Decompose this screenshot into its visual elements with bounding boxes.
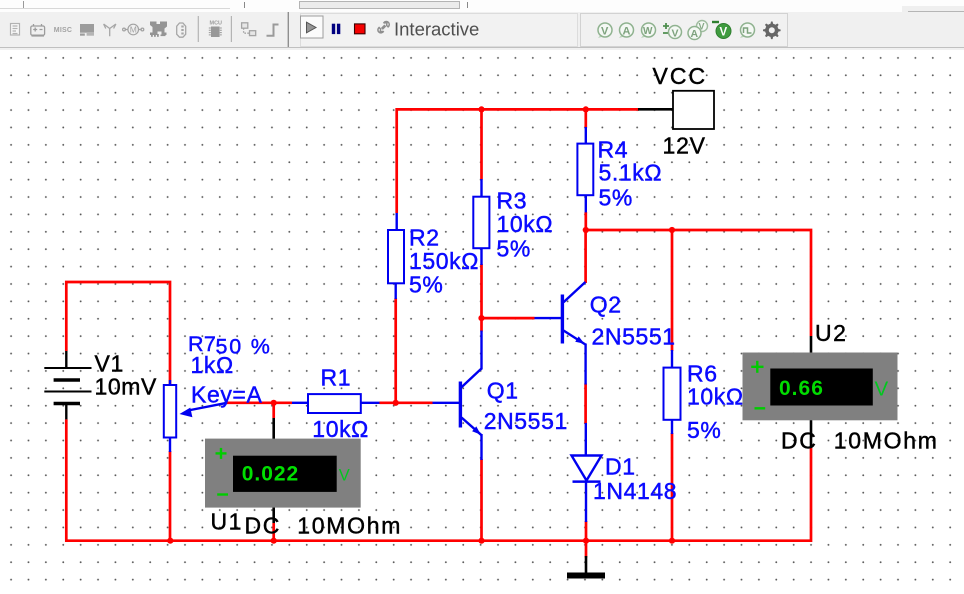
svg-text:V: V xyxy=(339,467,350,485)
svg-text:2N5551: 2N5551 xyxy=(484,408,568,434)
pause button xyxy=(332,24,335,34)
junction node rail / Q1 emitter xyxy=(478,538,484,544)
svg-text:1N4148: 1N4148 xyxy=(593,478,677,504)
probe -V active icon xyxy=(712,22,731,39)
junction node R3 / Q1 collector / Q2 base xyxy=(478,315,484,321)
svg-text:Q1: Q1 xyxy=(487,378,519,404)
wire VCC black lead xyxy=(638,108,674,111)
probe voltage-reference icon xyxy=(663,23,682,40)
gear settings icon xyxy=(763,22,781,40)
transistor Q2 xyxy=(535,282,586,385)
junction node R7 wiper / R1 / U1 xyxy=(271,400,277,406)
wire U1 minus to rail xyxy=(272,523,275,541)
wire R7 wiper to R1 xyxy=(225,401,292,404)
wire rail to R3 top xyxy=(480,109,483,179)
wire U1 plus black lead xyxy=(272,418,275,440)
wire Q1 emitter to rail xyxy=(480,459,483,541)
wire node to Q2 collector xyxy=(584,230,587,283)
wrench icon xyxy=(378,22,389,33)
svg-text:DC 10MOhm: DC 10MOhm xyxy=(245,513,403,539)
bus branch toolbar icon xyxy=(267,25,279,36)
probe A/V dual icon xyxy=(688,21,708,41)
probe W icon xyxy=(641,23,656,38)
separator xyxy=(198,16,199,42)
diode D1 xyxy=(572,423,602,522)
potentiometer R7 xyxy=(164,380,227,452)
wire node to U1 plus xyxy=(272,403,275,418)
svg-text:R1: R1 xyxy=(321,365,352,391)
wire R4 bottom to node xyxy=(584,212,587,230)
probe A icon xyxy=(619,23,634,38)
junction node VCC rail / R4 xyxy=(583,106,589,112)
wire Q2 emitter to D1 xyxy=(584,384,587,425)
separator xyxy=(231,16,232,42)
junction node R1 / R2 xyxy=(393,400,399,406)
svg-text:DC 10MOhm: DC 10MOhm xyxy=(781,428,939,454)
svg-text:Key=A: Key=A xyxy=(191,382,262,408)
wire V1 top to R7 top xyxy=(66,282,170,384)
wire node to R6 top and U2 plus xyxy=(586,230,811,336)
svg-text:0.66: 0.66 xyxy=(779,377,824,400)
svg-text:5%: 5% xyxy=(687,417,721,443)
wire node to Q2 base xyxy=(482,317,535,320)
peripheral toolbar icon xyxy=(80,24,94,36)
transistor Q1 xyxy=(433,331,482,460)
wire R6 bottom to rail xyxy=(671,433,674,541)
voltmeter U1 xyxy=(205,439,361,508)
svg-text:2N5551: 2N5551 xyxy=(592,324,676,350)
wire rail to R4 top xyxy=(584,109,587,128)
connector toolbar icon xyxy=(177,23,186,37)
electromechanical motor toolbar icon xyxy=(123,24,144,35)
panel separator xyxy=(288,12,289,50)
resistor R2 xyxy=(388,213,404,299)
partial icon at left edge xyxy=(11,24,20,36)
wire R1 to Q1 base xyxy=(380,401,433,404)
svg-text:0.022: 0.022 xyxy=(242,463,300,486)
junction node R6 top xyxy=(669,227,675,233)
wire node to R2 bottom xyxy=(394,298,397,403)
panel borders xyxy=(301,14,578,47)
wire rail to ground xyxy=(585,541,588,558)
junction node rail / ground xyxy=(583,538,589,544)
svg-text:150kΩ: 150kΩ xyxy=(409,248,479,274)
top sliver strip of window above xyxy=(0,0,964,12)
probe V icon xyxy=(598,23,612,38)
svg-text:R2: R2 xyxy=(409,225,440,251)
junction node rail / R7 xyxy=(167,538,173,544)
svg-text:R3: R3 xyxy=(497,188,528,214)
wire V1 bottom to ground rail to U2 bottom xyxy=(66,419,811,540)
wire U1 minus black lead xyxy=(272,506,275,523)
battery V1 xyxy=(44,351,91,419)
svg-text:V: V xyxy=(875,378,889,401)
resistor R4 xyxy=(577,127,593,212)
voltmeter U2 xyxy=(743,353,898,421)
MCU toolbar icon xyxy=(209,21,222,38)
hierarchical block toolbar icon xyxy=(242,23,256,36)
wire R2 top to VCC rail xyxy=(397,109,639,213)
svg-text:10kΩ: 10kΩ xyxy=(687,384,744,410)
battery/source toolbar icon xyxy=(31,24,45,36)
svg-text:5%: 5% xyxy=(599,185,633,211)
junction node rail / U1 minus xyxy=(271,538,277,544)
wire U2 plus black lead xyxy=(810,336,813,356)
play button (run) xyxy=(301,16,324,38)
junction node R4 / Q2 collector xyxy=(583,227,589,233)
power VCC xyxy=(673,91,714,129)
wire R3 bottom to Q1 collector xyxy=(480,264,483,332)
RF antenna toolbar icon xyxy=(104,24,116,36)
probe periodic icon xyxy=(740,23,755,38)
machine toolbar icon (dark glyph) xyxy=(150,22,167,37)
toolbar row xyxy=(0,12,964,50)
svg-text:1kΩ: 1kΩ xyxy=(191,352,234,378)
svg-text:10mV: 10mV xyxy=(95,374,158,400)
stop button xyxy=(355,24,366,34)
svg-text:5%: 5% xyxy=(497,236,531,262)
resistor R3 xyxy=(473,179,489,265)
svg-text:5%: 5% xyxy=(409,272,443,298)
wire U2 minus black lead xyxy=(810,419,813,448)
wire R7 bottom to rail xyxy=(169,451,172,541)
junction node rail / R6 bottom xyxy=(669,538,675,544)
svg-text:5.1kΩ: 5.1kΩ xyxy=(599,160,663,186)
junction node VCC rail / R3 xyxy=(478,106,484,112)
resistor R1 xyxy=(292,394,380,413)
svg-text:10kΩ: 10kΩ xyxy=(497,211,554,237)
svg-text:U1: U1 xyxy=(211,509,243,535)
svg-text:12V: 12V xyxy=(663,133,706,159)
svg-text:D1: D1 xyxy=(605,454,636,480)
svg-text:10kΩ: 10kΩ xyxy=(312,416,369,442)
svg-text:Q2: Q2 xyxy=(590,292,622,318)
wire D1 bottom to rail xyxy=(585,521,588,541)
wire node to R6 top xyxy=(671,230,674,351)
ground xyxy=(567,556,605,579)
resistor R6 xyxy=(664,350,681,434)
svg-text:VCC: VCC xyxy=(653,63,708,89)
svg-text:U2: U2 xyxy=(815,320,847,346)
